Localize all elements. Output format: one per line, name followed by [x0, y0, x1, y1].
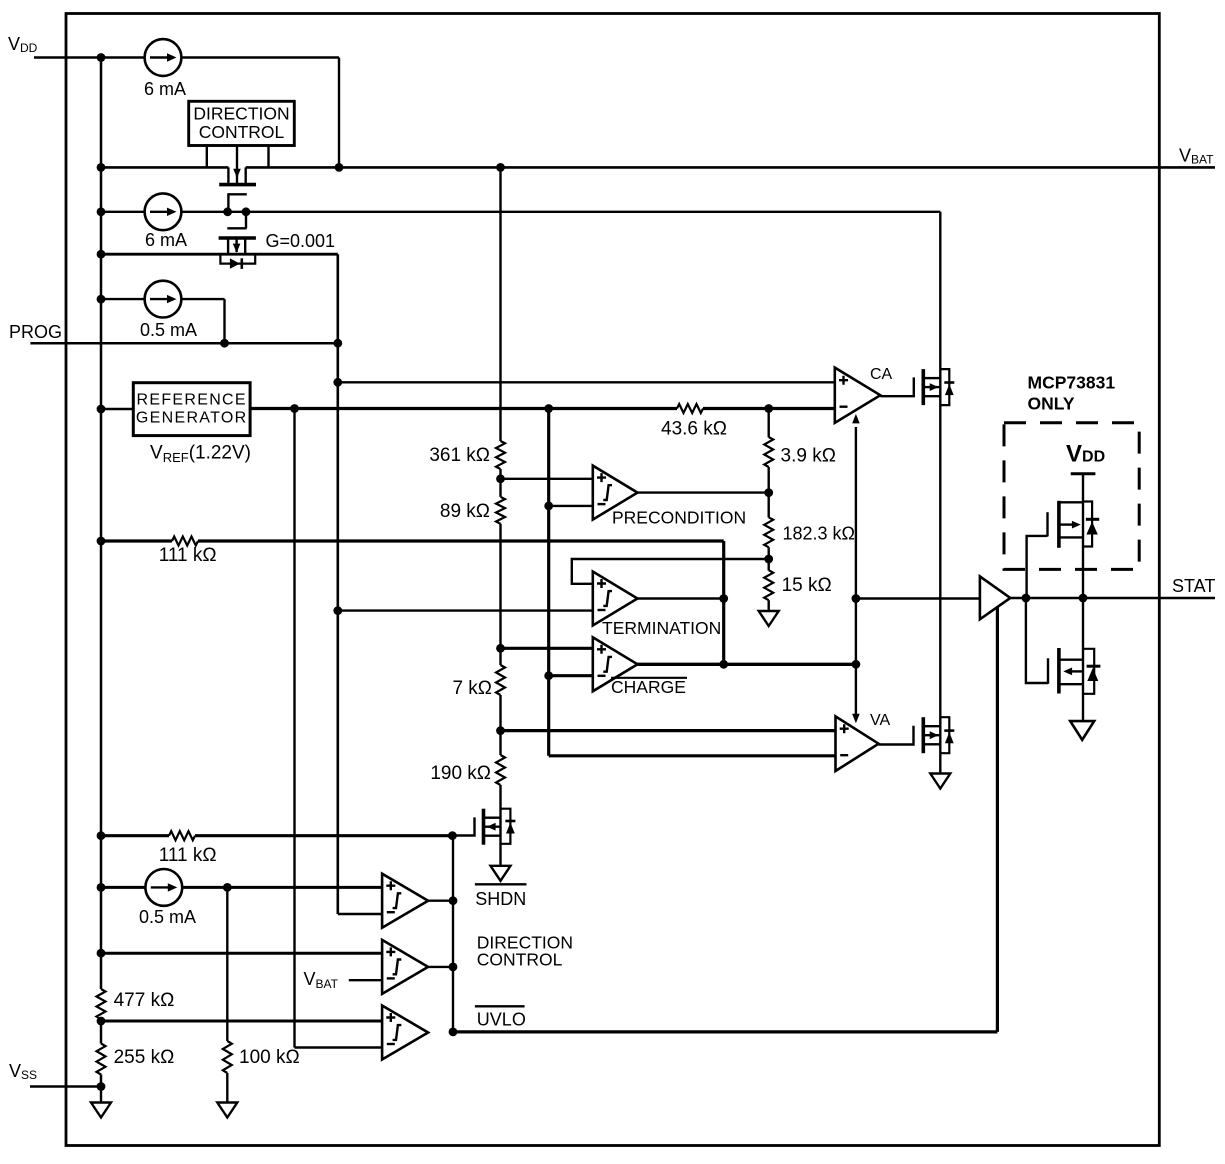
wire I1 to VBAT rail drop — [181, 56, 339, 58]
wire left VSS bus vertical — [100, 58, 103, 990]
block DIRECTION CONTROL (top) — [189, 101, 295, 145]
junction node at (723.7,664.3) — [719, 660, 728, 669]
wire to CA plus input — [338, 381, 835, 383]
wire to TERMINATION minus input — [338, 609, 593, 611]
arrowhead into CA — [852, 414, 860, 424]
op-amp CHARGE comparator — [593, 637, 638, 691]
resistor 190 kOhm — [496, 755, 505, 785]
junction node at (101,254.2) — [97, 250, 106, 259]
wire CA output to MOSFET gate — [880, 377, 914, 396]
svg-text:477 kΩ: 477 kΩ — [114, 990, 175, 1011]
wire I2 gate bias rail to output MOSFET rail — [181, 211, 940, 213]
wire battery sense to VA minus input — [549, 754, 836, 757]
resistor 111 kOhm lower — [169, 831, 195, 840]
junction node at (1025.9,598) — [1022, 594, 1031, 603]
resistor 15 kOhm — [764, 570, 773, 600]
junction node at (101,299.1) — [97, 295, 106, 304]
wire to PRECONDITION minus input — [549, 505, 593, 507]
op-amp VA voltage amplifier — [836, 716, 879, 771]
svg-text:SHDN: SHDN — [475, 889, 526, 909]
op-amp TERMINATION comparator — [593, 572, 638, 626]
wire CHARGE output to mode select line — [638, 663, 856, 666]
junction node at (500.5,730.6) — [496, 726, 505, 735]
junction node at (500.5,478.8) — [496, 474, 505, 483]
op-amp UVLO comparator — [382, 1006, 428, 1060]
wire 15k to ground — [768, 600, 770, 611]
wire PROG input — [30, 342, 338, 345]
wire PRECONDITION output to divider node — [638, 491, 769, 493]
junction node at (101,541) — [97, 537, 106, 546]
resistor 3.9 kOhm — [764, 437, 773, 467]
transistor Q1 pass PMOS top — [219, 146, 256, 212]
svg-text:MCP73831: MCP73831 — [1028, 373, 1116, 393]
junction node at (768.7,559) — [764, 555, 773, 564]
overline above SHDN — [475, 883, 527, 885]
transistor output MOSFET upper (CA driven) — [923, 369, 954, 405]
wire left bus into reference generator — [101, 408, 133, 410]
overline above CHARGE — [611, 677, 687, 679]
transistor Q2 pass PMOS G=0.001 — [219, 212, 256, 253]
wire UVLO output to inverter riser — [453, 1030, 997, 1033]
junction node at (500.5,167.4) — [496, 163, 505, 172]
wire STAT output — [1010, 597, 1215, 599]
svg-text:UVLO: UVLO — [477, 1009, 526, 1029]
junction node at (101,211.8) — [97, 207, 106, 216]
junction node at (101,1086.5) — [97, 1082, 106, 1091]
op-amp CA current amplifier — [835, 368, 881, 423]
junction node at (101,953.2) — [97, 949, 106, 958]
wire 361k to 89k — [499, 469, 501, 497]
wire VREF bus to UVLO minus input — [295, 1046, 383, 1048]
svg-text:43.6 kΩ: 43.6 kΩ — [661, 419, 727, 440]
wire 182.3k to 15k — [768, 547, 770, 570]
transistor STAT PMOS in dashed box — [1027, 501, 1100, 598]
current source I4 0.5mA — [145, 869, 182, 906]
wire left bus between 477k and 255k — [100, 1019, 103, 1044]
block REFERENCE GENERATOR — [133, 383, 250, 436]
wire I3 vertical drop to PROG — [223, 299, 225, 343]
junction node at (339,167.4) — [335, 163, 344, 172]
resistor 477 kOhm — [97, 989, 106, 1019]
svg-text:0.5 mA: 0.5 mA — [139, 907, 196, 927]
ground symbol under VA MOSFET rail — [930, 774, 950, 789]
svg-text:15 kΩ: 15 kΩ — [782, 575, 832, 596]
svg-text:VA: VA — [870, 712, 890, 729]
resistor 182.3 kOhm — [764, 517, 773, 547]
junction node at (227.6,211.8) — [223, 207, 232, 216]
wire divider tap to PRECONDITION plus input — [501, 478, 593, 480]
wire left bus to current source I2 — [101, 211, 145, 213]
wire comparator output bus vertical — [452, 836, 454, 1032]
svg-text:6 mA: 6 mA — [144, 79, 186, 99]
junction node at (101,167.4) — [97, 163, 106, 172]
wire mode line to STAT inverter input — [856, 597, 980, 599]
svg-text:182.3 kΩ: 182.3 kΩ — [783, 524, 856, 544]
wire SHDN comparator output — [428, 900, 453, 902]
wire TERMINATION feedback loop to 15k tap — [572, 559, 769, 584]
svg-text:111 kΩ: 111 kΩ — [159, 845, 217, 866]
wire vertical drop to VBAT rail — [338, 58, 340, 168]
junction node at (337.8,382.3) — [333, 378, 342, 387]
junction node at (768.7,492.6) — [764, 488, 773, 497]
wire divider tap to VA plus input — [501, 729, 836, 732]
wire VDD supply bar in dashed box — [1071, 472, 1096, 475]
op-amp DIRECTION CONTROL comparator — [382, 940, 428, 994]
resistor 43.6 kOhm — [677, 404, 703, 413]
svg-text:CONTROL: CONTROL — [477, 950, 563, 970]
svg-text:3.9 kΩ: 3.9 kΩ — [781, 446, 836, 467]
wire left bus to current source I3 — [101, 298, 145, 300]
svg-text:CA: CA — [870, 366, 893, 383]
wire 190k down through SHDN MOSFET to ground — [499, 785, 501, 866]
body diode of Q2 — [220, 255, 255, 269]
wire VBAT rail right segment to VBAT port — [246, 166, 1215, 169]
junction node at (101,887.4) — [97, 883, 106, 892]
current source I1 6mA — [145, 39, 182, 76]
wire VBAT rail left segment — [101, 166, 228, 169]
svg-text:361 kΩ: 361 kΩ — [429, 445, 490, 466]
resistor 100 kOhm — [223, 1041, 232, 1073]
junction node at (246,211.8) — [242, 207, 251, 216]
svg-text:ONLY: ONLY — [1028, 394, 1075, 414]
junction node at (101,1021) — [97, 1017, 106, 1026]
junction node at (101,57.5) — [97, 53, 106, 62]
wire to SHDN comparator minus input — [338, 913, 382, 915]
svg-text:REFERENCE: REFERENCE — [137, 391, 247, 408]
junction node at (453,1031.9) — [449, 1028, 458, 1037]
current source I3 0.5mA — [145, 281, 182, 318]
wire 111k to termination feedback drop — [198, 539, 724, 542]
wire to CHARGE minus input — [549, 674, 593, 677]
junction node at (453,966.9) — [449, 963, 458, 972]
wire reference output to 43.6k resistor — [250, 407, 677, 410]
junction node at (337.8,610.6) — [333, 606, 342, 615]
wire stub to ground under left bus — [100, 1087, 102, 1103]
junction node at (723.7,598.5) — [719, 594, 728, 603]
wire VDD bar to STAT node through PMOS — [1082, 474, 1084, 598]
junction node at (453,900.7) — [449, 896, 458, 905]
wire VSS input — [30, 1085, 101, 1087]
junction node at (224.5,343.2) — [220, 339, 229, 348]
junction node at (768.7,408.5) — [764, 404, 773, 413]
svg-text:GENERATOR: GENERATOR — [136, 410, 248, 427]
junction node at (294.5,408.5) — [290, 404, 299, 413]
overline above UVLO — [475, 1005, 525, 1007]
transistor SHDN pulldown MOSFET — [452, 809, 515, 845]
svg-text:DIRECTION: DIRECTION — [193, 104, 289, 124]
junction node at (101,409) — [97, 405, 106, 414]
resistor 89 kOhm — [496, 497, 505, 524]
svg-text:7 kΩ: 7 kΩ — [452, 678, 492, 699]
resistor 255 kOhm — [97, 1044, 106, 1075]
wire VDD input to current source I1 — [34, 56, 145, 58]
ground symbol under 100k — [217, 1103, 237, 1118]
junction node at (337.8,343.2) — [333, 339, 342, 348]
wire left bus to lower 111k — [101, 834, 169, 837]
svg-text:190 kΩ: 190 kΩ — [430, 763, 491, 784]
resistor 361 kOhm — [496, 441, 505, 469]
inverter STAT driver — [980, 576, 1010, 619]
wire battery sense bus vertical — [547, 409, 550, 756]
wire direction control box stub right — [267, 146, 269, 168]
junction node at (1083,598) — [1079, 594, 1088, 603]
transistor STAT NMOS in dashed box — [1026, 598, 1101, 694]
svg-text:TERMINATION: TERMINATION — [602, 618, 721, 638]
wire I4 to SHDN comparator plus input — [182, 886, 382, 889]
wire TERMINATION output — [638, 597, 724, 599]
svg-text:PROG: PROG — [9, 322, 62, 342]
wire 100k to ground — [226, 1073, 228, 1103]
wire PROG sense bus vertical — [336, 254, 339, 914]
current source I2 6mA — [145, 193, 182, 230]
wire I4 node down to 100k — [226, 887, 228, 1041]
wire Q2 source rail — [101, 253, 338, 256]
wire UVLO riser to inverter — [996, 608, 999, 1032]
svg-text:STAT: STAT — [1172, 576, 1215, 596]
op-amp SHDN comparator — [382, 874, 428, 928]
ground symbol under left bus — [91, 1103, 111, 1118]
junction node at (101,835.7) — [97, 831, 106, 840]
block MCP73831 ONLY dashed box — [1004, 423, 1139, 570]
wire mode select line between CA and VA — [855, 427, 857, 715]
junction node at (452.4,835.6) — [448, 831, 457, 840]
svg-text:89 kΩ: 89 kΩ — [440, 501, 490, 522]
junction node at (500.5,648.3) — [496, 644, 505, 653]
wire DIRECTION CONTROL comparator output — [428, 966, 453, 968]
ground symbol under 15k — [759, 611, 779, 626]
wire 43.6k node down to 3.9k — [768, 409, 770, 438]
wire direction control box stub left — [206, 146, 208, 168]
arrowhead into VA — [852, 714, 860, 724]
wire output MOSFET drain rail vertical — [939, 212, 941, 774]
wire vertical termination-charge link — [722, 541, 725, 664]
wire 3.9k to 182.3k — [768, 467, 770, 518]
ground symbol under SHDN MOSFET — [491, 866, 511, 881]
op-amp PRECONDITION comparator — [593, 466, 638, 520]
wire 89k down to 7k — [499, 524, 501, 665]
svg-text:CONTROL: CONTROL — [199, 122, 285, 142]
svg-text:111 kΩ: 111 kΩ — [159, 545, 217, 566]
svg-text:CHARGE: CHARGE — [611, 677, 686, 697]
wire STAT node down through NMOS to ground — [1082, 598, 1084, 721]
wire I3 to PROG drop — [181, 298, 224, 300]
wire 111k to SHDN gate node — [195, 834, 452, 837]
junction node at (548.7,408.5) — [544, 404, 553, 413]
svg-text:G=0.001: G=0.001 — [266, 231, 336, 251]
wire 477k-255k tap to UVLO plus input — [101, 1020, 382, 1023]
wire left bus to current source I4 — [101, 886, 145, 889]
resistor 7 kOhm — [496, 665, 505, 695]
svg-text:255 kΩ: 255 kΩ — [114, 1047, 175, 1068]
wire left bus to 111k resistor — [101, 539, 172, 542]
junction node at (548.7,505.9) — [544, 502, 553, 511]
wire 43.6k to CA minus input — [703, 407, 835, 410]
wire VA output to MOSFET gate — [879, 726, 914, 745]
wire VBAT label lead to DC minus input — [349, 979, 382, 981]
svg-text:0.5 mA: 0.5 mA — [140, 320, 197, 340]
wire left bus below 255k — [100, 1075, 103, 1087]
wire left bus to DIRECTION CONTROL plus input — [101, 952, 382, 955]
junction node at (855.9,598.5) — [852, 594, 861, 603]
svg-text:6 mA: 6 mA — [145, 230, 187, 250]
junction node at (855.9,664.3) — [852, 660, 861, 669]
junction node at (548.7,675.7) — [544, 671, 553, 680]
resistor 111 kOhm upper — [172, 537, 198, 546]
svg-text:PRECONDITION: PRECONDITION — [612, 508, 746, 528]
wire VBAT rail down to 361k — [499, 167, 501, 441]
junction node at (227.3,887.4) — [223, 883, 232, 892]
ground symbol under STAT NMOS — [1070, 721, 1094, 740]
svg-text:100 kΩ: 100 kΩ — [239, 1047, 300, 1068]
transistor output MOSFET lower (VA driven) — [923, 717, 954, 753]
wire divider tap to CHARGE plus input — [501, 647, 593, 650]
wire VREF bus vertical — [293, 409, 295, 1048]
wire 7k down to 190k — [499, 695, 501, 755]
